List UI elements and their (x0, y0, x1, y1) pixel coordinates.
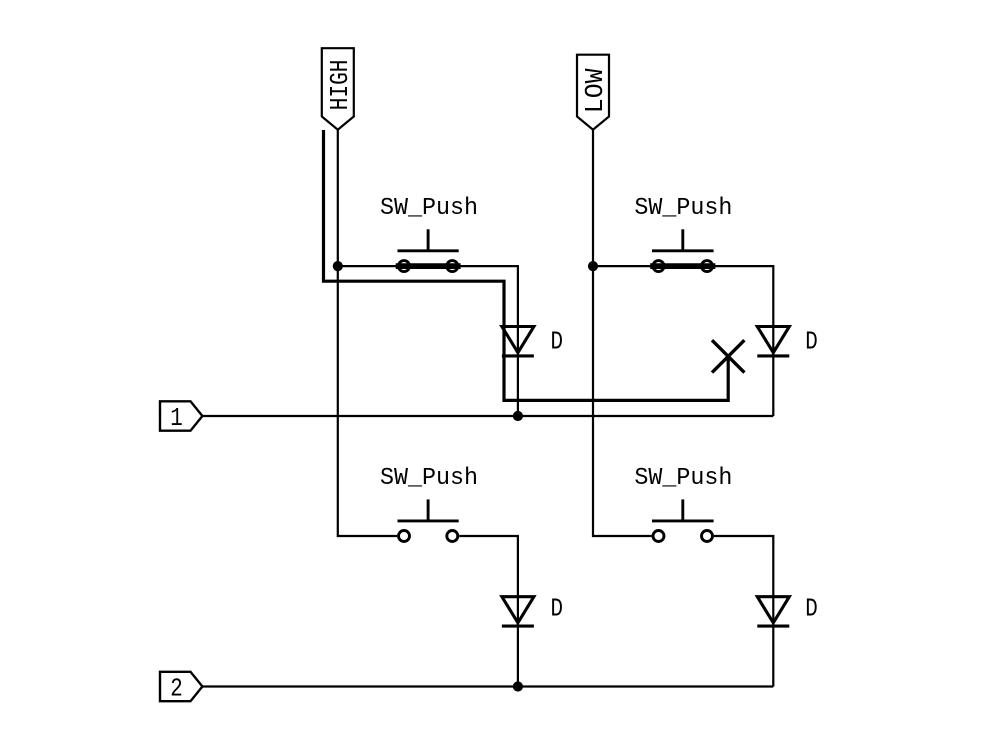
wire HIGH column down to lower-left switch (338, 130, 397, 536)
svg-text:LOW: LOW (580, 68, 610, 113)
svg-text:SW_Push: SW_Push (634, 195, 732, 222)
switch SW_Push top-left (pressed) (380, 195, 478, 272)
diode D4 (757, 595, 818, 626)
svg-text:1: 1 (170, 404, 183, 433)
svg-text:D: D (551, 595, 564, 624)
wire net 2 horizontal (202, 685, 773, 687)
svg-text:2: 2 (170, 674, 183, 703)
svg-text:SW_Push: SW_Push (634, 465, 732, 492)
wire junction LOW to SW2 left pin (593, 265, 652, 267)
wire SW4 right pin through diode D4 down to net 2 end (714, 536, 773, 687)
global label LOW (577, 55, 610, 130)
wire junction HIGH to SW1 left pin (338, 265, 397, 267)
diode D1 (502, 327, 563, 357)
junction on net 1 (513, 411, 523, 421)
hierarchical label 1 (160, 401, 202, 433)
switch SW_Push top-right (pressed) (634, 195, 732, 272)
wire SW1 right pin to diode D1 down to net 1 (459, 266, 518, 416)
wire net 1 horizontal (202, 415, 773, 417)
diode D2 (757, 327, 818, 357)
svg-text:D: D (805, 595, 818, 624)
junction on net 2 (513, 681, 523, 691)
svg-text:SW_Push: SW_Push (380, 195, 478, 222)
junction at HIGH column (333, 261, 343, 271)
switch SW_Push bottom-right (open) (634, 465, 732, 541)
svg-text:D: D (551, 328, 564, 357)
switch SW_Push bottom-left (open) (380, 465, 478, 541)
wire LOW column down to lower-right switch (593, 130, 652, 536)
hierarchical label 2 (160, 672, 202, 704)
wire SW2 right pin through diode D2 down to net 1 end (714, 266, 773, 416)
diode D3 (502, 595, 563, 626)
svg-text:HIGH: HIGH (325, 60, 355, 111)
global label HIGH (322, 48, 355, 130)
svg-text:SW_Push: SW_Push (380, 465, 478, 492)
junction at LOW column (588, 261, 598, 271)
no-connect X (712, 340, 744, 372)
wire SW3 right pin through diode D3 down to net 2 (459, 536, 518, 687)
thick wire from HIGH area to no-connect (324, 130, 729, 400)
svg-text:D: D (805, 328, 818, 357)
